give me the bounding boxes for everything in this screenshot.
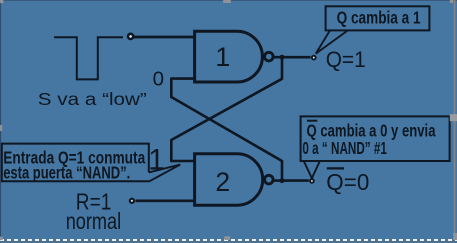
svg-text:Q cambia a 1: Q cambia a 1 [337,8,421,28]
callout box "Qbar cambia a 0 y envia / 0 a NAND #1" [301,116,450,161]
NAND gate U1 body [195,31,263,82]
svg-text:normal: normal [66,208,122,234]
node S (open terminal circle) [128,34,133,39]
bottom strip below slide edge [0,240,457,243]
wire U1 output to node Q [273,56,311,59]
callout tail to node Q [316,31,348,54]
left edge line [0,0,1,238]
svg-text:esta puerta “NAND”.: esta puerta “NAND”. [3,163,130,183]
selection handle top-center [223,0,231,3]
selection handle bottom-right [453,233,457,240]
wire R node to NAND #2 input B [136,199,197,202]
overline of Qbar [327,167,344,169]
inversion bubble of U2 [265,175,274,184]
feedback wire Q to NAND #2 input (cross wire) [171,57,282,161]
callout box "Q cambia a 1" [326,6,430,30]
callout tail pointing to U2 input corner [149,165,181,182]
right edge grey line [454,0,456,240]
svg-text:Q=1: Q=1 [326,47,366,72]
wire S node to NAND #1 input A [134,36,196,39]
svg-text:1: 1 [215,42,230,72]
selection handle top-left [0,0,3,3]
top edge line [0,0,457,1]
junction dot on Qbar output [280,178,285,183]
grey handle at right of callout 2 [450,114,457,121]
svg-text:0: 0 [153,67,164,90]
slide edge dashed white line [0,239,457,241]
input pulse waveform (S goes low) [54,37,123,79]
selection handle bottom-center [224,236,230,240]
node Q (open terminal circle) [312,56,316,60]
NAND gate U2 body [195,154,263,205]
selection handle left-middle [0,125,2,131]
svg-text:Q=0: Q=0 [326,169,369,195]
feedback wire Qbar to NAND #1 input (cross wire) [171,79,282,181]
svg-text:S va a “low”: S va a “low” [38,89,147,109]
callout box "Entrada Q=1 conmuta esta puerta NAND." [2,144,150,182]
node R (open terminal circle) [130,199,134,203]
wire U2 output to node Qbar [273,179,309,182]
junction dot on Q output [280,55,285,60]
inversion bubble of U1 [265,52,274,61]
svg-text:2: 2 [215,167,230,197]
selection handle bottom-left [0,237,3,241]
callout tail to node Qbar [304,161,320,178]
selection handle top-right [450,0,453,3]
svg-text:0 a “ NAND” #1: 0 a “ NAND” #1 [302,138,387,158]
node Qbar (open terminal circle) [310,179,314,183]
overline of Qbar in callout [307,120,317,122]
